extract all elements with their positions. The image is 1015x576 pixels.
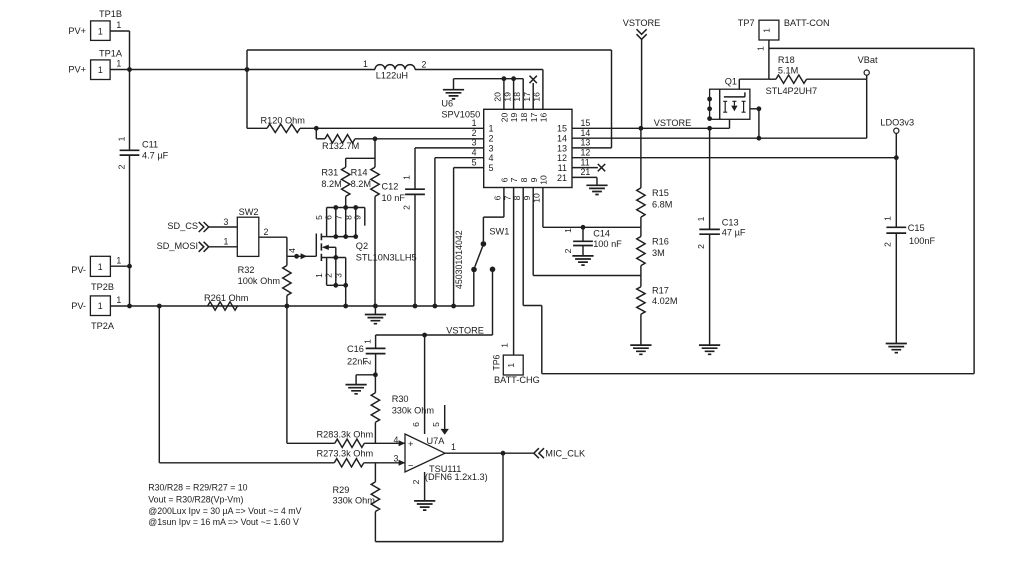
resistor R13 2.7M <box>316 128 483 151</box>
note text block <box>148 482 301 527</box>
svg-text:8.2M: 8.2M <box>351 179 371 189</box>
svg-text:1: 1 <box>116 295 121 305</box>
wire PV-/GND rail <box>110 305 473 307</box>
svg-text:VBat: VBat <box>858 55 878 65</box>
svg-text:1: 1 <box>883 216 893 221</box>
svg-text:100nF: 100nF <box>909 236 935 246</box>
svg-text:PV+: PV+ <box>68 26 86 36</box>
terminal VBat <box>858 55 878 79</box>
resistor R28 3.3k Ohm <box>287 430 405 448</box>
Q2 source pin cluster pins 1-3 <box>314 255 348 306</box>
svg-text:3: 3 <box>489 143 494 153</box>
wire pin 14 to VBat <box>572 137 867 139</box>
svg-text:PV-: PV- <box>71 265 86 275</box>
svg-text:1: 1 <box>489 124 494 134</box>
wire Q1 drain to VBat line <box>750 106 761 138</box>
resistor R27 3.3k Ohm <box>159 449 405 467</box>
IC U6 bottom pin numbers <box>493 175 549 203</box>
test point TP2A <box>71 295 121 331</box>
svg-text:BATT-CHG: BATT-CHG <box>494 375 540 385</box>
svg-text:1: 1 <box>402 175 412 180</box>
node junction TP2B <box>127 264 132 269</box>
resistor R31 8.2M <box>321 158 375 207</box>
svg-text:11: 11 <box>558 163 567 173</box>
svg-text:7: 7 <box>333 215 343 220</box>
svg-text:VSTORE: VSTORE <box>654 118 692 128</box>
svg-text:MIC_CLK: MIC_CLK <box>545 448 586 458</box>
wire pin 6 to SW1 <box>483 188 504 242</box>
wire pin 4 to ground rail <box>435 158 484 306</box>
svg-text:6: 6 <box>411 422 421 427</box>
svg-text:17: 17 <box>529 113 539 123</box>
switch SW1 <box>454 227 510 289</box>
svg-text:19: 19 <box>509 113 519 123</box>
svg-text:14: 14 <box>557 134 567 144</box>
svg-text:9: 9 <box>529 177 539 182</box>
svg-text:2: 2 <box>411 479 421 484</box>
svg-text:Q1: Q1 <box>725 77 737 87</box>
svg-text:SD_MOSI: SD_MOSI <box>157 241 198 251</box>
svg-text:3: 3 <box>394 454 399 464</box>
test point TP1A <box>68 49 129 80</box>
svg-text:11: 11 <box>581 157 590 167</box>
svg-text:R283.3k Ohm: R283.3k Ohm <box>317 430 374 440</box>
wire PV+ vertical from TP1B through TP1A to C11 <box>129 31 131 150</box>
wire SW1 left contact to rail <box>473 272 475 306</box>
svg-text:4: 4 <box>489 153 494 163</box>
svg-text:R30: R30 <box>392 394 409 404</box>
svg-text:TP2A: TP2A <box>91 321 115 331</box>
svg-text:13: 13 <box>581 138 591 148</box>
svg-text:15: 15 <box>557 124 567 134</box>
svg-text:330k Ohm: 330k Ohm <box>392 406 435 416</box>
svg-text:1: 1 <box>755 46 765 51</box>
svg-text:1: 1 <box>98 65 103 75</box>
IC U6 right pin numbers <box>557 118 590 183</box>
inductor L1 22uH <box>363 59 427 81</box>
svg-text:10: 10 <box>539 175 549 185</box>
wire VSTORE net to op-amp <box>376 325 493 335</box>
wire pins 20/19/18 to ground <box>454 76 524 109</box>
IC U6 top pin numbers <box>493 92 549 122</box>
power symbol VSTORE <box>623 18 661 128</box>
svg-text:TP7: TP7 <box>738 18 755 28</box>
svg-text:15: 15 <box>581 118 591 128</box>
svg-text:STL10N3LLH5: STL10N3LLH5 <box>356 253 417 263</box>
svg-text:1: 1 <box>472 118 477 128</box>
svg-text:5: 5 <box>431 422 441 427</box>
svg-text:BATT-CON: BATT-CON <box>784 18 830 28</box>
op-amp supply pin 6 from VSTORE <box>411 335 424 434</box>
svg-text:6: 6 <box>323 215 333 220</box>
wire pin 12 LDO3v3 <box>572 157 896 159</box>
svg-text:4.7 µF: 4.7 µF <box>142 150 169 160</box>
svg-text:10 nF: 10 nF <box>382 193 406 203</box>
node junction output/feedback <box>501 451 506 456</box>
svg-text:21: 21 <box>581 167 591 177</box>
node junction VSTORE/pin 15 <box>639 118 692 131</box>
svg-text:1: 1 <box>116 20 121 30</box>
svg-text:2: 2 <box>323 273 333 278</box>
node junction rail/C12 <box>413 304 418 309</box>
resistor R16 3M <box>637 227 669 275</box>
resistor R17 4.02M <box>637 276 678 346</box>
svg-text:TP2B: TP2B <box>91 282 114 292</box>
port SD_MOSI <box>157 237 238 252</box>
svg-text:U6: U6 <box>441 98 453 108</box>
svg-text:5: 5 <box>489 163 494 173</box>
svg-text:R32: R32 <box>238 265 255 275</box>
node junction VSTORE/C13/Q1 <box>707 126 712 131</box>
op-amp U7A TSU111 <box>394 434 488 482</box>
wire PV- vertical below C11 <box>129 155 131 306</box>
svg-text:TP1B: TP1B <box>99 9 122 19</box>
port SD_CS <box>167 217 237 232</box>
svg-text:2: 2 <box>117 164 127 169</box>
svg-text:1: 1 <box>116 59 121 69</box>
svg-text:+: + <box>408 438 414 449</box>
svg-text:1: 1 <box>117 136 127 141</box>
svg-text:8: 8 <box>519 177 529 182</box>
svg-text:@200Lux Ipv = 30 µA => Vout ~=: @200Lux Ipv = 30 µA => Vout ~= 4 mV <box>148 506 301 516</box>
svg-text:2: 2 <box>421 60 426 70</box>
svg-text:9: 9 <box>352 215 362 220</box>
svg-text:21: 21 <box>557 173 567 183</box>
svg-text:1: 1 <box>762 28 772 33</box>
svg-text:2: 2 <box>489 134 494 144</box>
node junction rail/pin4 <box>433 304 438 309</box>
svg-text:1: 1 <box>224 237 229 247</box>
wire pin 5 to ground rail <box>454 168 484 306</box>
node junction rail/pin5 <box>451 304 456 309</box>
svg-text:R261 Ohm: R261 Ohm <box>204 293 249 303</box>
svg-text:13: 13 <box>557 143 567 153</box>
svg-text:12: 12 <box>581 148 591 158</box>
svg-text:R16: R16 <box>652 237 669 247</box>
svg-text:1: 1 <box>506 363 516 368</box>
node junction pin14/Q1 drain <box>757 136 762 141</box>
resistor R1 20 Ohm <box>247 115 484 132</box>
pin 17 no-connect <box>530 76 537 110</box>
test point TP7 <box>738 18 830 79</box>
node junction rail/Q2 source <box>343 304 348 309</box>
node junction PV+ at x=247 <box>245 67 250 72</box>
capacitor C11 <box>117 136 169 169</box>
op-amp pin 2 ground <box>411 472 435 510</box>
svg-text:2: 2 <box>472 128 477 138</box>
svg-text:R14: R14 <box>351 168 368 178</box>
svg-text:1: 1 <box>116 255 121 265</box>
switch SW2 <box>237 207 258 256</box>
svg-text:3: 3 <box>333 273 343 278</box>
pin 21 ground <box>572 177 608 194</box>
node junction LDO3v3/C15 <box>894 155 899 160</box>
svg-text:R31: R31 <box>321 168 338 178</box>
capacitor C13 <box>696 128 746 345</box>
svg-text:4: 4 <box>472 148 477 158</box>
capacitor C16 <box>347 335 386 375</box>
node junction VSTORE/op-amp supply <box>422 333 427 338</box>
svg-text:R18: R18 <box>778 55 795 65</box>
svg-text:R29: R29 <box>333 485 350 495</box>
svg-text:R273.3k Ohm: R273.3k Ohm <box>317 449 374 459</box>
wire pin 7 to TP6 <box>513 188 515 356</box>
wire VBat to pin 14 <box>866 79 868 138</box>
svg-text:SW1: SW1 <box>489 227 509 237</box>
ground on rail <box>365 306 386 324</box>
svg-text:SW2: SW2 <box>239 207 259 217</box>
svg-text:100k Ohm: 100k Ohm <box>238 276 281 286</box>
capacitor C14 <box>563 227 622 265</box>
test point TP2B <box>71 255 129 291</box>
wire PV+ horizontal to inductor <box>130 69 376 71</box>
svg-text:12: 12 <box>557 153 567 163</box>
svg-text:100 nF: 100 nF <box>593 239 622 249</box>
svg-text:(DFN6 1.2x1.3): (DFN6 1.2x1.3) <box>425 472 488 482</box>
svg-text:Vout = R30/R28(Vp-Vm): Vout = R30/R28(Vp-Vm) <box>148 495 243 505</box>
wire op-amp output <box>445 442 533 453</box>
terminal LDO3v3 <box>880 117 914 157</box>
svg-text:47 µF: 47 µF <box>722 228 746 238</box>
svg-text:450301014042: 450301014042 <box>454 230 464 289</box>
svg-text:4: 4 <box>394 435 399 445</box>
transistor Q2 STL10N3LLH5 symbol <box>316 234 416 263</box>
svg-text:3: 3 <box>224 217 229 227</box>
node junction rail/R32-R28 branch <box>285 304 290 309</box>
resistor R29 330k Ohm <box>333 463 380 542</box>
svg-text:C12: C12 <box>382 181 399 191</box>
resistor R26 1 Ohm <box>204 293 249 310</box>
svg-text:2: 2 <box>696 244 706 249</box>
wire SW1 right contact to VSTORE <box>492 272 494 335</box>
svg-text:14: 14 <box>581 128 591 138</box>
svg-text:20: 20 <box>500 113 510 123</box>
node junction C16/ground/R30 <box>373 372 378 377</box>
port MIC_CLK <box>534 448 586 458</box>
wire inductor to pin 16 <box>415 70 543 110</box>
svg-text:6.8M: 6.8M <box>652 200 672 210</box>
resistor R32 100k Ohm <box>238 256 292 306</box>
ground at C16 <box>346 375 376 394</box>
svg-text:C16: C16 <box>347 344 364 354</box>
wire SW2 pin 2 to gate node <box>259 227 287 256</box>
svg-text:R17: R17 <box>652 285 669 295</box>
svg-text:TP6: TP6 <box>491 354 501 370</box>
svg-text:LDO3v3: LDO3v3 <box>880 117 914 127</box>
svg-text:R120 Ohm: R120 Ohm <box>261 115 306 125</box>
svg-text:2: 2 <box>402 205 412 210</box>
svg-text:PV+: PV+ <box>68 65 86 75</box>
svg-text:6: 6 <box>500 177 510 182</box>
svg-text:18: 18 <box>519 113 529 123</box>
svg-text:5: 5 <box>472 157 477 167</box>
ground below R17 <box>630 345 651 354</box>
wire gate of Q2 <box>287 248 317 259</box>
svg-text:STL4P2UH7: STL4P2UH7 <box>766 86 818 96</box>
svg-text:SD_CS: SD_CS <box>167 221 198 231</box>
svg-text:3M: 3M <box>652 248 665 258</box>
svg-text:4: 4 <box>287 248 297 253</box>
svg-text:1: 1 <box>696 216 706 221</box>
svg-text:1: 1 <box>451 442 456 452</box>
svg-text:−: − <box>408 460 414 471</box>
wire feedback loop <box>375 453 503 541</box>
svg-text:R15: R15 <box>652 188 669 198</box>
svg-text:2: 2 <box>563 248 573 253</box>
svg-text:VSTORE: VSTORE <box>446 325 484 335</box>
svg-text:8.2M: 8.2M <box>321 179 341 189</box>
test point TP1B <box>68 9 129 40</box>
ground for pins 20/19/18 <box>443 79 464 99</box>
node junction TP1A / PV+ bus <box>127 67 132 72</box>
svg-text:2: 2 <box>264 227 269 237</box>
node junction pin2/R14 <box>373 136 378 141</box>
svg-text:20: 20 <box>493 92 503 102</box>
pin 11 no-connect <box>572 164 605 171</box>
Q2 drain pin cluster pins 5-9 <box>314 205 365 239</box>
svg-text:U7A: U7A <box>427 436 446 446</box>
svg-text:6: 6 <box>493 195 503 200</box>
svg-text:C15: C15 <box>908 223 925 233</box>
svg-text:1: 1 <box>98 301 103 311</box>
wire Q1 source to R18 node <box>739 79 769 89</box>
ground below C15 <box>886 344 907 353</box>
svg-text:1: 1 <box>98 262 103 272</box>
svg-text:5.1M: 5.1M <box>778 66 798 76</box>
resistor R15 6.8M <box>637 128 673 227</box>
wire PV+ riser and top line to pin 13 <box>247 50 612 148</box>
IC U6 left pin numbers <box>472 118 494 173</box>
svg-text:1: 1 <box>363 59 368 69</box>
svg-text:1: 1 <box>563 228 573 233</box>
svg-text:L122uH: L122uH <box>376 70 408 80</box>
svg-text:1: 1 <box>98 26 103 36</box>
node junction TP2A on rail <box>127 304 132 309</box>
svg-text:4.02M: 4.02M <box>652 296 678 306</box>
node junction C14 <box>581 225 586 230</box>
svg-text:1: 1 <box>500 343 510 348</box>
svg-text:PV-: PV- <box>71 301 86 311</box>
svg-text:16: 16 <box>539 113 549 123</box>
svg-text:3: 3 <box>472 138 477 148</box>
svg-text:R132.7M: R132.7M <box>322 141 359 151</box>
test point TP6 <box>491 343 539 385</box>
svg-text:TP1A: TP1A <box>99 49 123 59</box>
svg-text:C11: C11 <box>142 139 158 149</box>
capacitor C15 <box>883 158 936 344</box>
node junction R1/R13 <box>314 126 319 131</box>
svg-text:7: 7 <box>509 177 519 182</box>
svg-text:330k Ohm: 330k Ohm <box>333 496 376 506</box>
resistor R18 5.1M <box>769 55 867 84</box>
svg-text:VSTORE: VSTORE <box>623 18 661 28</box>
node junction rail/ground <box>373 304 378 309</box>
ground below C13 <box>699 345 720 354</box>
transistor Q1 STL4P2UH7 <box>707 77 817 122</box>
svg-text:2: 2 <box>363 360 373 365</box>
svg-text:@1sun Ipv = 16 mA => Vout ~= 1: @1sun Ipv = 16 mA => Vout ~= 1.60 V <box>148 517 299 527</box>
IC U6 SPV1050 body <box>441 98 572 187</box>
svg-text:1: 1 <box>363 339 373 344</box>
svg-text:Q2: Q2 <box>356 241 368 251</box>
op-amp pin 5 arrow <box>431 405 449 435</box>
svg-text:C14: C14 <box>593 229 610 239</box>
wire R27 branch from rail <box>158 306 160 463</box>
svg-text:2: 2 <box>883 242 893 247</box>
svg-text:C13: C13 <box>722 218 739 228</box>
wire pin 9 to R16/R17 junction <box>533 188 641 276</box>
node junction rail/R27 branch <box>157 304 162 309</box>
wire R28 branch from rail <box>286 306 288 443</box>
capacitor C12 <box>382 148 484 306</box>
wire pin 8 frame loop to TP7 node <box>523 48 974 373</box>
svg-text:R30/R28 = R29/R27 = 10: R30/R28 = R29/R27 = 10 <box>148 482 247 492</box>
wire pin 10 to R15/R16 junction <box>543 188 641 228</box>
wire pin 15 VSTORE to Q1 gate <box>572 119 730 128</box>
resistor R14 8.2M <box>351 139 380 306</box>
resistor R30 330k Ohm <box>371 375 434 444</box>
